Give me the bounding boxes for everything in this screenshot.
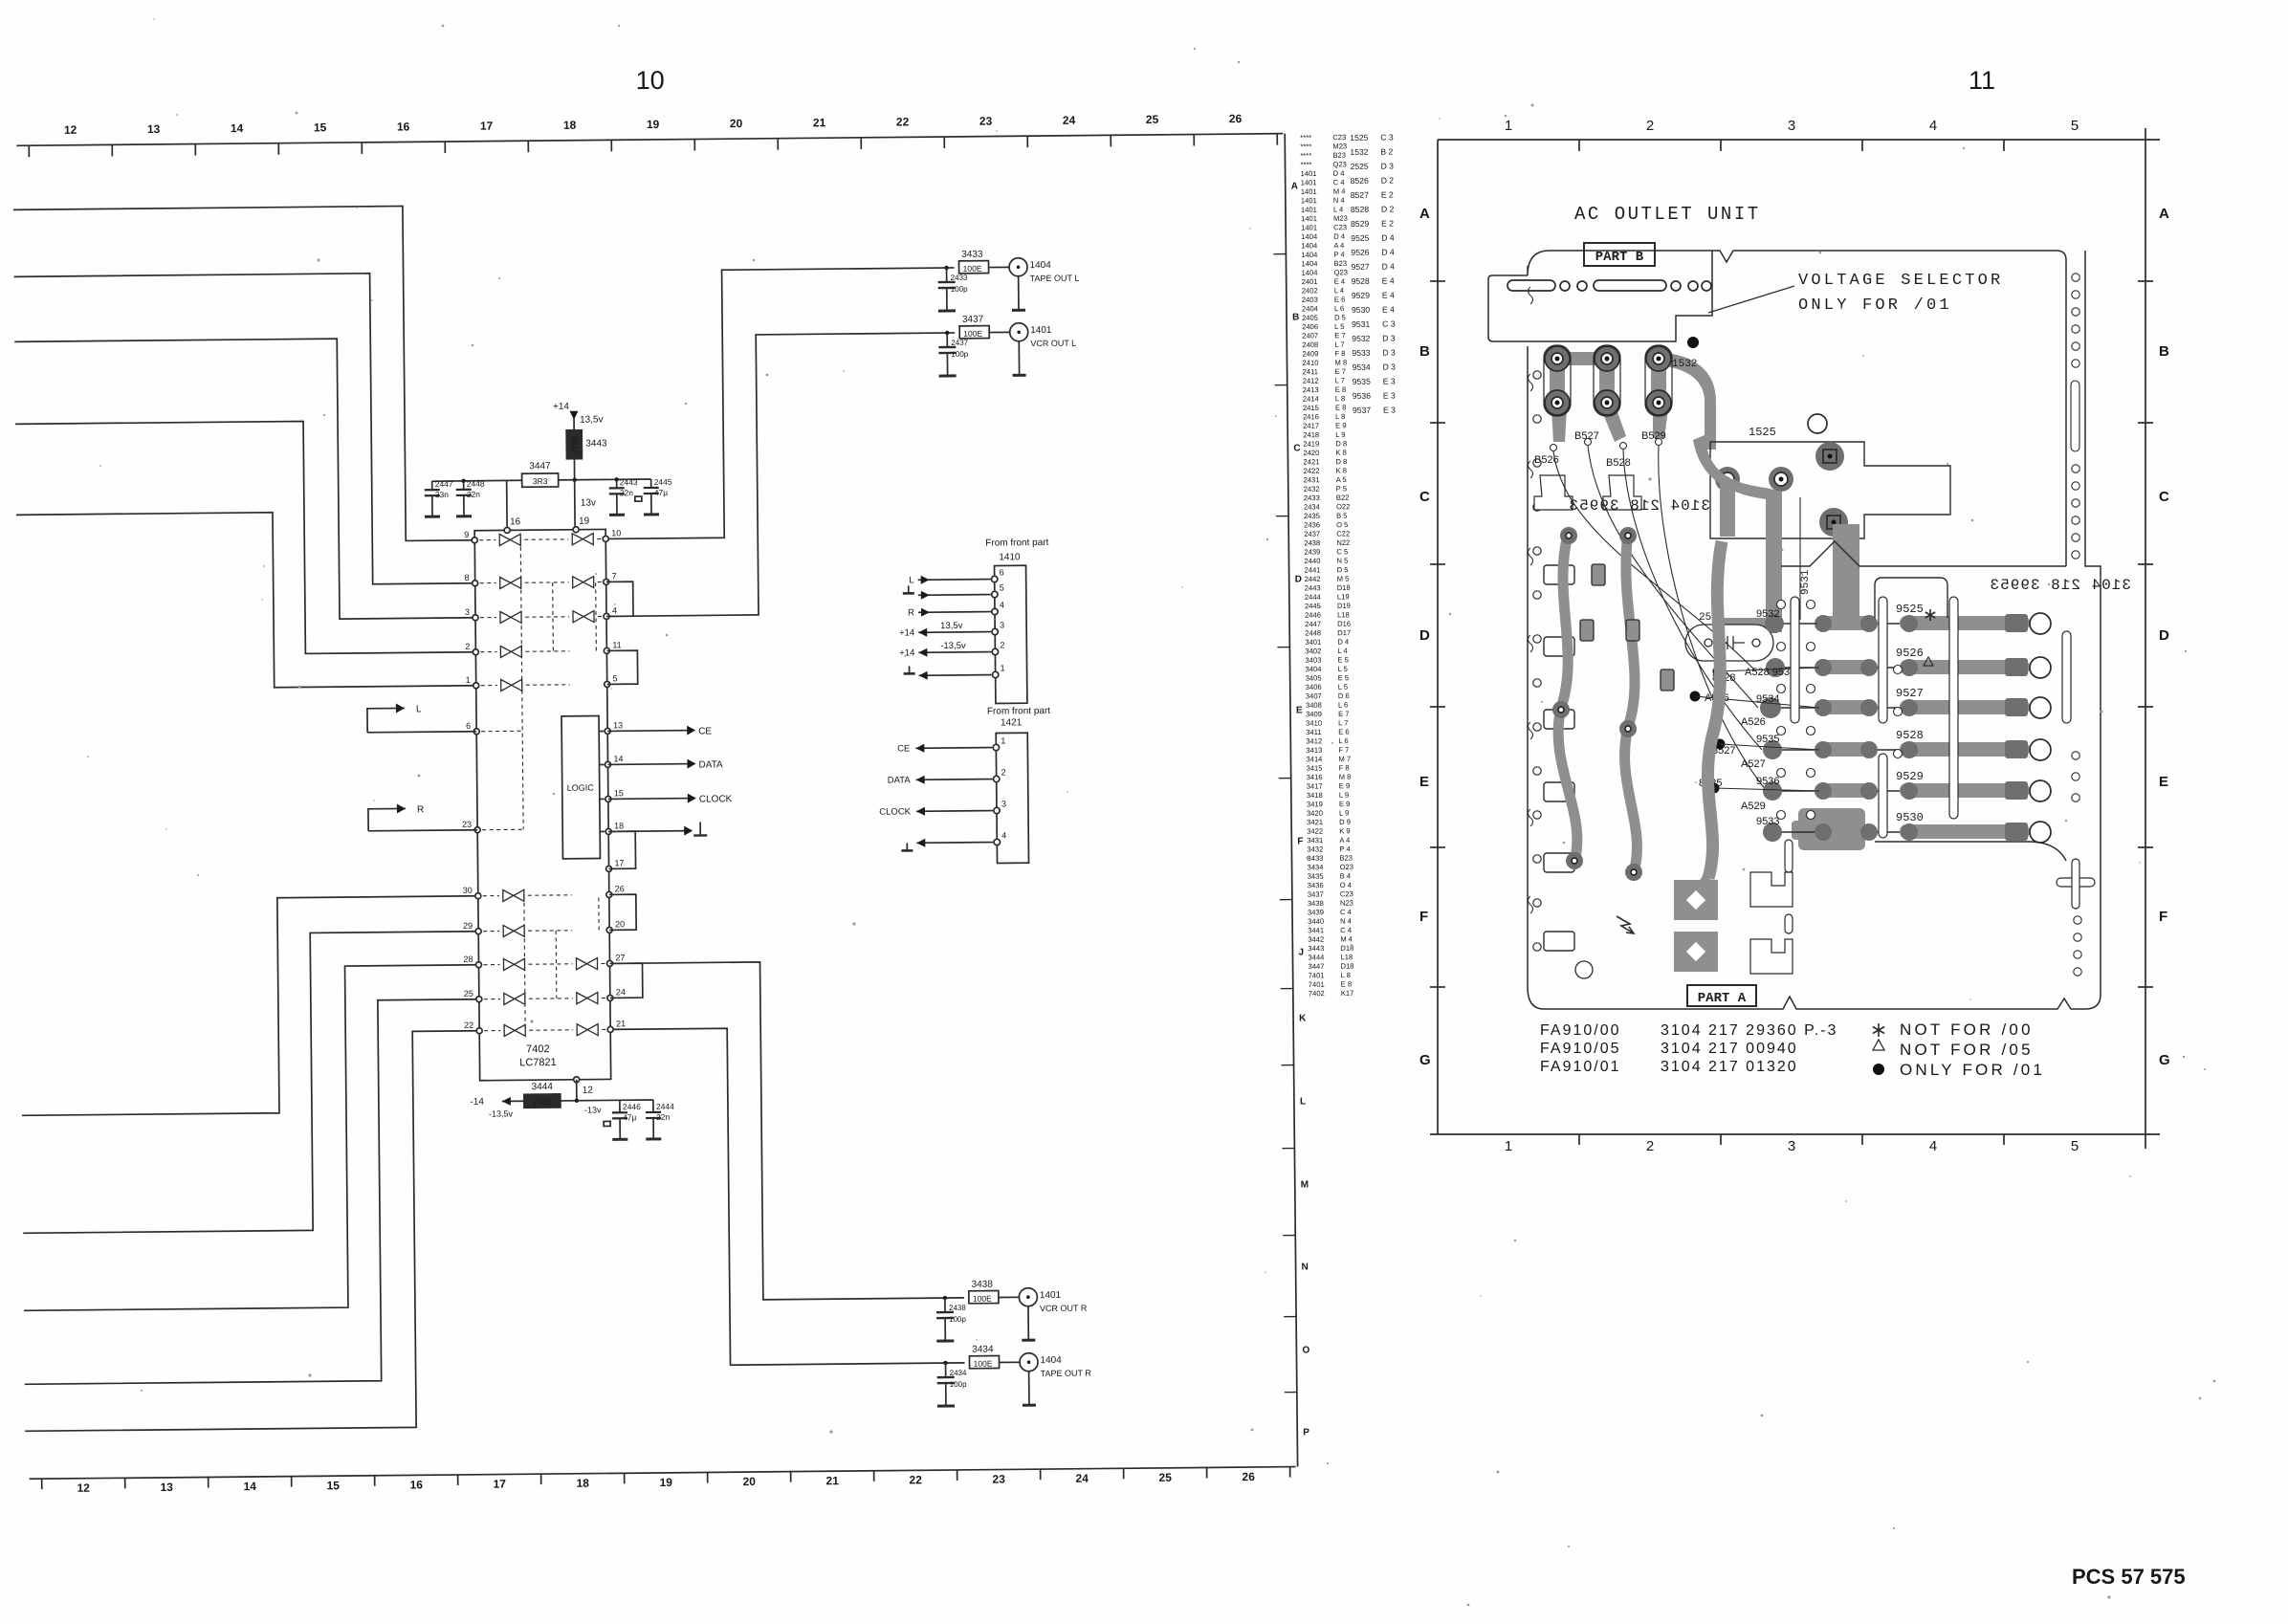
svg-text:3: 3 [1001, 799, 1006, 808]
svg-text:9525: 9525 [1896, 603, 1924, 616]
svg-text:3406: 3406 [1306, 683, 1322, 691]
svg-text:3405: 3405 [1306, 673, 1322, 682]
pads B52x top row [1544, 345, 1672, 416]
svg-text:A526: A526 [1741, 716, 1766, 728]
svg-text:D 6: D 6 [1338, 691, 1350, 700]
relay pad bottom [1819, 508, 1848, 537]
analog switch row 608 (left) [500, 577, 521, 588]
ground plane square 2 [1674, 932, 1718, 972]
svg-text:2415: 2415 [1303, 404, 1319, 412]
svg-text:2407: 2407 [1302, 331, 1318, 340]
svg-text:N23: N23 [1340, 899, 1353, 908]
svg-text:2404: 2404 [1302, 304, 1318, 313]
svg-text:26: 26 [1242, 1470, 1255, 1483]
svg-text:2414: 2414 [1303, 394, 1319, 403]
svg-text:FA910/01: FA910/01 [1540, 1059, 1621, 1075]
svg-text:D18: D18 [1341, 962, 1354, 971]
svg-text:22n: 22n [656, 1112, 671, 1122]
svg-text:9526: 9526 [1896, 647, 1924, 660]
svg-text:D 8: D 8 [1335, 439, 1347, 448]
svg-text:B22: B22 [1336, 494, 1350, 502]
svg-text:5: 5 [613, 673, 618, 683]
svg-text:L 4: L 4 [1333, 205, 1343, 213]
svg-text:N 4: N 4 [1340, 916, 1352, 925]
page11 top ruler [1438, 118, 2160, 151]
svg-text:2413: 2413 [1303, 385, 1319, 394]
svg-text:1525: 1525 [1749, 426, 1776, 439]
svg-text:20: 20 [615, 919, 625, 929]
svg-text:N22: N22 [1336, 538, 1350, 547]
svg-text:5: 5 [2071, 1138, 2079, 1154]
svg-text:7401: 7401 [1309, 980, 1325, 989]
svg-text:23: 23 [992, 1472, 1005, 1485]
capacitor 2447 33n [425, 479, 454, 516]
svg-text:B23: B23 [1332, 151, 1346, 160]
svg-text:2447: 2447 [435, 479, 453, 489]
svg-text:K 9: K 9 [1339, 826, 1350, 835]
svg-text:20: 20 [742, 1475, 756, 1488]
svg-text:+14: +14 [553, 402, 570, 412]
capacitor 2444 22n [646, 1100, 675, 1139]
svg-text:2446: 2446 [1305, 611, 1321, 620]
svg-text:D 4: D 4 [1333, 169, 1345, 178]
svg-text:1401: 1401 [1301, 223, 1317, 231]
svg-text:26: 26 [1229, 112, 1243, 125]
svg-text:PART A: PART A [1698, 991, 1747, 1006]
svg-text:F 7: F 7 [1338, 746, 1349, 755]
capacitor 2433 100p [938, 266, 969, 311]
svg-text:2: 2 [465, 642, 470, 651]
page11 right border [2138, 128, 2153, 1149]
svg-text:3417: 3417 [1307, 781, 1323, 790]
pads B52x second row [1545, 390, 1671, 415]
svg-text:B: B [2159, 343, 2169, 360]
pin 18 [605, 821, 624, 834]
svg-text:2: 2 [1646, 118, 1654, 134]
ground pin 18 [608, 822, 707, 836]
svg-text:L: L [416, 704, 422, 714]
bracket pins 27-24 [610, 963, 643, 998]
svg-text:2448: 2448 [1305, 628, 1321, 637]
pin 29 [463, 921, 481, 934]
svg-text:3: 3 [465, 607, 470, 617]
svg-text:F: F [1419, 909, 1428, 925]
svg-text:6: 6 [1000, 567, 1004, 577]
svg-text:16: 16 [510, 516, 521, 527]
pin 17 [605, 858, 624, 871]
svg-text:C 3: C 3 [1382, 319, 1396, 329]
svg-text:18: 18 [614, 821, 624, 830]
resistor 3443 270E [566, 429, 607, 479]
pin 1 [466, 675, 479, 689]
relay 1525 outline [1710, 426, 1950, 538]
jumper row left pads [1760, 614, 1785, 801]
svg-text:N: N [1302, 1262, 1309, 1272]
resistor 3447 3R3 [521, 461, 558, 487]
svg-text:E 8: E 8 [1341, 979, 1352, 988]
svg-text:9525: 9525 [1351, 233, 1369, 243]
voltage selector block outline [1488, 251, 1712, 341]
feed pads left of relay [1715, 467, 1793, 492]
wire 3443 to pin19 13v [575, 480, 597, 527]
svg-text:3414: 3414 [1306, 755, 1322, 763]
svg-text:2441: 2441 [1305, 565, 1321, 574]
connector 1421 From front part [987, 706, 1052, 864]
svg-text:E 5: E 5 [1337, 655, 1348, 664]
svg-text:9529: 9529 [1352, 291, 1370, 300]
svg-text:-14: -14 [470, 1097, 484, 1108]
svg-text:E 9: E 9 [1339, 800, 1350, 808]
svg-text:8528: 8528 [1351, 205, 1369, 214]
svg-text:27: 27 [615, 953, 625, 962]
svg-text:3401: 3401 [1305, 638, 1321, 647]
svg-text:13: 13 [613, 720, 623, 730]
svg-text:15: 15 [326, 1479, 340, 1492]
svg-text:L18: L18 [1337, 610, 1350, 619]
capacitor 2437 100p [938, 331, 969, 376]
svg-text:2420: 2420 [1303, 449, 1319, 457]
PCB board outline (AC outlet unit) [1528, 251, 2101, 1009]
svg-text:2439: 2439 [1304, 548, 1320, 557]
svg-text:3444: 3444 [532, 1082, 554, 1092]
1410 pin 3 [899, 620, 1004, 638]
wire pin 4 to VCR OUT L [604, 333, 957, 617]
svg-text:3437: 3437 [1308, 890, 1324, 899]
svg-text:1401: 1401 [1301, 187, 1317, 196]
svg-text:M 4: M 4 [1340, 934, 1353, 943]
wavy trace 3 [1707, 541, 1722, 878]
svg-text:2409: 2409 [1302, 349, 1318, 358]
wire net K-30 (pin 30) [20, 896, 480, 1116]
svg-text:1401: 1401 [1301, 169, 1317, 178]
svg-text:3438: 3438 [972, 1280, 994, 1290]
svg-text:B528: B528 [1606, 457, 1631, 469]
svg-text:7401: 7401 [1309, 971, 1325, 979]
svg-text:14: 14 [243, 1480, 256, 1493]
jumper 9530 row [1770, 811, 2051, 843]
svg-text:3404: 3404 [1306, 665, 1322, 673]
1410 pin 4 [908, 600, 1004, 618]
svg-text:3420: 3420 [1307, 809, 1323, 818]
svg-text:1401: 1401 [1301, 214, 1317, 223]
svg-text:3104 217 00940: 3104 217 00940 [1661, 1041, 1798, 1057]
svg-text:E 6: E 6 [1338, 728, 1349, 736]
svg-text:9527: 9527 [1352, 262, 1370, 272]
svg-text:L: L [1300, 1096, 1306, 1107]
svg-text:O 5: O 5 [1336, 520, 1348, 529]
pin 10 [603, 528, 621, 541]
svg-text:2431: 2431 [1304, 475, 1320, 484]
only-for dots [1690, 667, 1726, 794]
svg-text:DATA: DATA [698, 759, 723, 770]
svg-text:1401: 1401 [1301, 178, 1317, 187]
wire pin12 to -13v node [561, 1079, 620, 1115]
svg-text:13: 13 [160, 1481, 173, 1494]
svg-text:2444: 2444 [1305, 593, 1321, 602]
svg-text:3419: 3419 [1307, 800, 1323, 808]
labels B526 B527 B528 B529 [1534, 430, 1666, 469]
svg-text:9529: 9529 [1896, 770, 1924, 783]
svg-text:F: F [1297, 836, 1303, 846]
svg-text:3447: 3447 [529, 461, 551, 472]
svg-text:9531: 9531 [1352, 319, 1370, 329]
T-cutout straps [1534, 475, 1641, 510]
svg-text:M 4: M 4 [1333, 187, 1346, 195]
svg-text:PART B: PART B [1595, 250, 1644, 265]
svg-text:M 7: M 7 [1338, 755, 1351, 763]
svg-text:P: P [1303, 1427, 1309, 1437]
component lead pads B52x [1551, 439, 1662, 451]
svg-text:9533: 9533 [1352, 348, 1370, 358]
svg-text:C 5: C 5 [1336, 547, 1348, 556]
svg-text:9528: 9528 [1896, 729, 1924, 742]
svg-text:1404: 1404 [1302, 269, 1318, 277]
svg-text:D 2: D 2 [1381, 205, 1395, 214]
resistor 3433 100E [958, 249, 1009, 274]
RCA jack 1404 TAPE OUT L [1009, 257, 1080, 310]
svg-text:E: E [1296, 705, 1303, 715]
left column pad squares [1544, 565, 1574, 951]
svg-text:B 4: B 4 [1340, 871, 1351, 880]
svg-text:2444: 2444 [656, 1102, 674, 1111]
jumper 9527 row [1775, 687, 2051, 718]
1410 pin 2 [899, 640, 1004, 658]
svg-text:1401: 1401 [1030, 325, 1052, 336]
svg-text:12: 12 [583, 1086, 594, 1096]
svg-text:3444: 3444 [1308, 953, 1324, 961]
svg-text:2445: 2445 [654, 477, 672, 487]
pin 26 [606, 884, 625, 897]
svg-text:22: 22 [464, 1020, 473, 1030]
svg-text:25: 25 [464, 989, 473, 999]
svg-text:2433: 2433 [1304, 494, 1320, 502]
svg-text:18: 18 [576, 1477, 589, 1490]
svg-text:M 5: M 5 [1337, 575, 1350, 583]
wire pin 21 to TAPE OUT R [610, 1026, 964, 1367]
svg-text:B 5: B 5 [1336, 512, 1347, 520]
svg-text:7402: 7402 [526, 1043, 550, 1055]
input L hook [367, 703, 476, 733]
svg-text:L 8: L 8 [1335, 394, 1345, 403]
svg-text:D 4: D 4 [1382, 262, 1396, 272]
svg-text:L 6: L 6 [1334, 304, 1344, 313]
svg-text:LOGIC: LOGIC [567, 783, 595, 793]
svg-text:21: 21 [616, 1019, 626, 1028]
svg-text:2433: 2433 [951, 274, 968, 282]
svg-text:M23: M23 [1332, 142, 1347, 150]
svg-text:100E: 100E [963, 329, 982, 339]
svg-text:-13,5v: -13,5v [940, 641, 966, 651]
svg-text:R: R [417, 804, 424, 815]
svg-text:D 3: D 3 [1382, 348, 1396, 358]
analog switch row 1076 (left) [504, 1024, 525, 1036]
zigzag mark [1617, 916, 1634, 933]
svg-text:30: 30 [463, 886, 473, 895]
RCA jack 1404 TAPE OUT R [1020, 1352, 1092, 1405]
svg-text:+14: +14 [899, 627, 914, 638]
svg-text:2403: 2403 [1302, 296, 1318, 304]
svg-text:3104 217 01320: 3104 217 01320 [1661, 1059, 1798, 1075]
page10 top ruler [16, 112, 1283, 158]
svg-text:+14: +14 [899, 647, 914, 658]
svg-text:19: 19 [659, 1476, 672, 1489]
svg-text:2448: 2448 [467, 479, 485, 489]
svg-text:-13v: -13v [584, 1106, 602, 1115]
wire net D-3 (pin 3) [14, 338, 475, 623]
svg-text:E 8: E 8 [1335, 404, 1346, 412]
svg-text:O23: O23 [1340, 863, 1353, 871]
svg-text:L 4: L 4 [1334, 286, 1344, 295]
jumper 9526 row [1775, 647, 2051, 678]
svg-text:8527: 8527 [1351, 190, 1369, 200]
svg-text:2417: 2417 [1303, 422, 1319, 430]
svg-text:L 5: L 5 [1334, 322, 1344, 331]
capacitor 2446 47u [604, 1100, 642, 1139]
svg-text:L 9: L 9 [1339, 791, 1349, 800]
svg-text:3408: 3408 [1306, 701, 1322, 710]
svg-text:3443: 3443 [585, 438, 607, 449]
svg-text:2438: 2438 [1304, 538, 1320, 547]
separator row letters [1291, 181, 1311, 1437]
left edge bracket marks [1529, 287, 1533, 913]
LOGIC block [561, 716, 600, 859]
-14 supply arrow [470, 1096, 524, 1119]
svg-text:C23: C23 [1340, 889, 1353, 898]
svg-text:14: 14 [231, 121, 244, 135]
svg-text:100p: 100p [950, 1380, 967, 1389]
svg-text:L 9: L 9 [1339, 808, 1349, 817]
svg-text:D19: D19 [1337, 602, 1351, 610]
svg-text:9: 9 [464, 530, 469, 539]
svg-text:1401: 1401 [1040, 1290, 1062, 1301]
svg-text:9526: 9526 [1351, 248, 1369, 257]
component 2525 [1685, 612, 1773, 661]
svg-text:E 4: E 4 [1382, 291, 1395, 300]
lead lines dots to jumpers [1695, 624, 1819, 791]
wire -13v to caps [620, 1099, 653, 1101]
svg-text:16: 16 [409, 1478, 423, 1491]
svg-text:1532: 1532 [1672, 359, 1697, 370]
svg-text:A527: A527 [1741, 758, 1766, 770]
svg-text:****: **** [1300, 151, 1311, 160]
svg-text:12: 12 [64, 123, 77, 137]
svg-text:E 7: E 7 [1334, 331, 1345, 340]
capacitor 2448 22n [456, 479, 486, 516]
svg-text:C 3: C 3 [1380, 133, 1394, 143]
wire net M-28 (pin 28) [21, 965, 482, 1311]
svg-text:13v: 13v [581, 498, 596, 509]
svg-text:VCR OUT R: VCR OUT R [1040, 1304, 1088, 1313]
svg-text:C: C [1293, 443, 1300, 453]
ground plane square 1 [1674, 880, 1718, 920]
svg-text:A: A [1419, 206, 1430, 222]
svg-text:1410: 1410 [999, 552, 1021, 562]
svg-text:29: 29 [463, 921, 473, 931]
capacitor 2445 47u [635, 477, 673, 515]
svg-text:E 4: E 4 [1334, 277, 1345, 286]
svg-text:D 3: D 3 [1380, 162, 1394, 171]
analog switch row 1043 (right) [577, 993, 598, 1004]
svg-text:ONLY FOR /01: ONLY FOR /01 [1900, 1061, 2045, 1079]
svg-text:M23: M23 [1333, 214, 1348, 223]
svg-text:5: 5 [2071, 118, 2079, 134]
svg-text:D 8: D 8 [1335, 457, 1347, 466]
svg-text:3413: 3413 [1306, 746, 1322, 755]
svg-text:3443: 3443 [1308, 944, 1324, 953]
trace pads lower [1552, 527, 1642, 881]
svg-text:18: 18 [563, 119, 577, 132]
legend symbols [1873, 1023, 1884, 1075]
svg-text:6: 6 [466, 721, 471, 731]
grey trunk traces [1693, 435, 1865, 850]
svg-text:100E: 100E [963, 264, 982, 274]
svg-text:4: 4 [1929, 118, 1937, 134]
strap cutout 2 [1750, 939, 1793, 974]
svg-text:FA910/00: FA910/00 [1540, 1022, 1621, 1039]
svg-text:M 8: M 8 [1334, 358, 1347, 366]
page11 bottom ruler [1430, 1134, 2160, 1154]
analog switch row 972 (left) [503, 925, 524, 936]
svg-text:22: 22 [896, 115, 910, 128]
svg-text:3435: 3435 [1308, 872, 1324, 881]
svg-text:Q23: Q23 [1332, 160, 1346, 168]
analog switch row 1076 (right) [577, 1024, 598, 1036]
svg-text:2525: 2525 [1350, 162, 1368, 171]
wavy trace 2 [1625, 532, 1638, 872]
svg-text:****: **** [1300, 161, 1311, 169]
svg-text:AC OUTLET UNIT: AC OUTLET UNIT [1574, 204, 1761, 225]
svg-text:D 4: D 4 [1333, 232, 1345, 241]
svg-text:2445: 2445 [1305, 602, 1321, 610]
svg-text:F: F [2159, 909, 2167, 925]
input R hook [368, 803, 477, 831]
svg-text:9537: 9537 [1353, 406, 1371, 415]
svg-text:CLOCK: CLOCK [699, 794, 733, 804]
svg-text:2410: 2410 [1302, 359, 1318, 367]
legend NOT FOR /00 [1900, 1020, 2045, 1079]
wire net F-1 (pin 1) [16, 511, 476, 691]
svg-text:Q23: Q23 [1334, 268, 1348, 276]
svg-text:11: 11 [612, 640, 621, 649]
1421 pin 2 DATA [888, 767, 1006, 785]
svg-text:9535: 9535 [1353, 377, 1371, 386]
svg-text:L18: L18 [1340, 953, 1353, 961]
svg-text:E 8: E 8 [1335, 385, 1346, 394]
svg-text:B529: B529 [1641, 430, 1666, 442]
svg-text:D: D [1419, 627, 1430, 644]
pin 4 [604, 605, 617, 619]
svg-text:100p: 100p [949, 1315, 966, 1324]
wire pin 27 to VCR OUT R [610, 960, 964, 1302]
svg-text:C 4: C 4 [1333, 178, 1345, 187]
svg-text:19: 19 [647, 118, 660, 131]
connector 1410 From front part [985, 538, 1050, 704]
svg-text:2411: 2411 [1303, 367, 1318, 376]
svg-text:A: A [1291, 181, 1298, 191]
IC 7402 LC7821 body [474, 529, 611, 1080]
svg-text:4: 4 [1001, 830, 1006, 840]
wavy trace 1 [1558, 532, 1577, 861]
svg-text:14: 14 [613, 754, 623, 763]
svg-text:1: 1 [1001, 663, 1005, 672]
svg-text:13,5v: 13,5v [940, 621, 963, 631]
svg-text:N 5: N 5 [1336, 557, 1348, 565]
svg-text:3438: 3438 [1308, 899, 1324, 908]
svg-text:100E: 100E [974, 1359, 993, 1369]
svg-text:3434: 3434 [972, 1345, 994, 1355]
svg-text:L: L [909, 575, 913, 585]
svg-text:****: **** [1300, 143, 1311, 151]
